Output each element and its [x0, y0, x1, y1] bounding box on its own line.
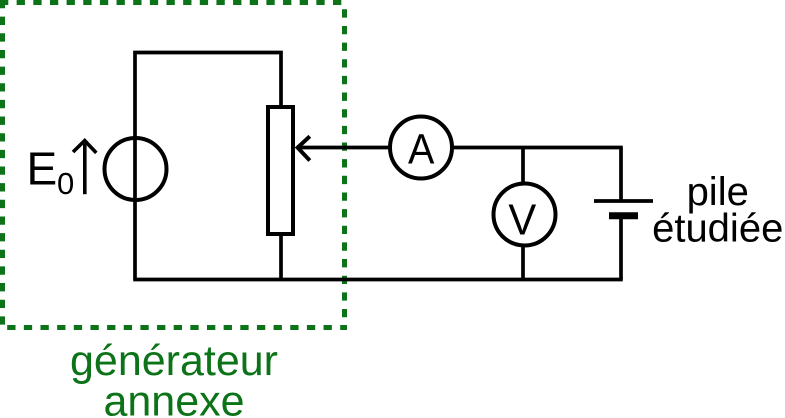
dashed box bottom edge [0, 325, 347, 330]
battery long plate (positive) [594, 199, 653, 203]
wire bottom horizontal [133, 278, 623, 282]
voltmeter letter V [508, 195, 536, 244]
wire left loop: top wire and left vertical wire [135, 53, 281, 280]
svg-text:0: 0 [57, 166, 74, 201]
svg-text:E: E [27, 143, 58, 195]
wire potentiometer bottom lead [279, 234, 283, 280]
svg-text:V: V [508, 195, 536, 244]
wire battery branch upper [619, 148, 623, 202]
E0 arrow [83, 144, 87, 195]
wiper arrow wire into potentiometer [299, 146, 422, 150]
dashed box top edge (générateur annexe boundary) [0, 0, 347, 5]
potentiometer body [268, 107, 293, 234]
svg-text:A: A [408, 125, 435, 173]
voltage source circle E0 [105, 138, 167, 200]
wire battery branch lower [619, 216, 623, 280]
battery short plate (negative) [609, 212, 638, 219]
dashed box left edge [0, 0, 5, 330]
wire ammeter to battery branch [421, 146, 623, 150]
wire voltmeter branch vertical [521, 148, 525, 280]
svg-text:étudiée: étudiée [652, 206, 783, 250]
svg-text:annexe: annexe [103, 378, 244, 418]
voltmeter circle [494, 184, 556, 246]
dashed box right edge [342, 5, 347, 330]
wiper arrowhead [298, 136, 310, 160]
ammeter circle [390, 117, 452, 179]
ammeter letter A [408, 125, 435, 173]
